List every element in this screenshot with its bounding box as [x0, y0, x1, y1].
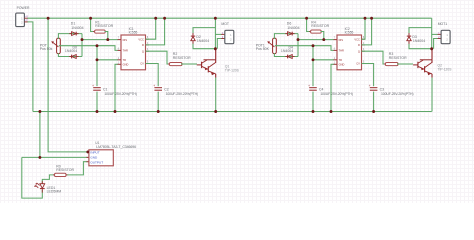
- wire flyback diode D3 bottom: [409, 42, 432, 49]
- wire resistor R4 to DIS: [321, 32, 324, 40]
- wire +12V to resistor R1: [91, 18, 96, 31]
- wire +12V feed to U1 INPUT: [48, 18, 87, 152]
- svg-text:100UF-25V-20%(PTH): 100UF-25V-20%(PTH): [320, 92, 352, 96]
- diode D1: [69, 21, 83, 35]
- svg-text:GND: GND: [123, 63, 129, 67]
- svg-text:MOT: MOT: [221, 22, 229, 26]
- svg-text:1N4004: 1N4004: [413, 39, 425, 43]
- svg-text:TR: TR: [123, 58, 127, 62]
- capacitor C2: [153, 84, 198, 96]
- capacitor C1: [92, 46, 137, 112]
- wire +12V to resistor R4: [307, 18, 312, 31]
- svg-text:100UF-25V-20%(PTH): 100UF-25V-20%(PTH): [104, 92, 136, 96]
- svg-text:CV: CV: [356, 62, 360, 66]
- wire POWER pin2 to ground bus: [27, 22, 33, 112]
- wire IC2 R to +12V bus: [362, 18, 372, 45]
- LED LED1: [34, 181, 61, 193]
- svg-text:VCC: VCC: [354, 37, 360, 41]
- wire IC GND to ground bus: [331, 64, 334, 111]
- junction dots power section: [38, 17, 89, 159]
- diode D2 flyback: [191, 33, 209, 44]
- wire resistor R1 to DIS: [105, 32, 108, 40]
- wire diode junction vertical: [81, 34, 83, 57]
- svg-text:CV: CV: [140, 62, 144, 66]
- svg-text:Q: Q: [358, 49, 360, 53]
- wire resistor R2 to transistor base: [181, 63, 197, 65]
- svg-text:C1: C1: [103, 87, 108, 91]
- wire ground bus: [33, 111, 432, 113]
- op-amp timer IC1 IC555: [118, 27, 149, 70]
- svg-text:+: +: [92, 84, 94, 88]
- connector MOT: [221, 22, 234, 44]
- svg-text:D6: D6: [287, 21, 292, 25]
- diode D0: [65, 46, 79, 59]
- resistor R0: [53, 164, 74, 176]
- svg-text:1N4004: 1N4004: [197, 39, 209, 43]
- potentiometer POT1: [256, 38, 277, 54]
- wire POT wiper to THR: [59, 46, 118, 51]
- svg-text:Pos 50k: Pos 50k: [40, 47, 53, 51]
- svg-text:DIS: DIS: [123, 38, 128, 42]
- svg-text:Pos 50K: Pos 50K: [256, 47, 270, 51]
- svg-text:+: +: [308, 84, 310, 88]
- svg-text:+: +: [153, 84, 155, 88]
- wire IC2 CV to capacitor C3: [362, 64, 374, 112]
- connector POWER: [16, 6, 30, 26]
- wire flyback diode D2 bottom: [193, 42, 215, 49]
- svg-text:C2: C2: [164, 87, 169, 91]
- junction dots oscillator: [81, 17, 167, 113]
- svg-text:RESISTOR: RESISTOR: [389, 56, 407, 60]
- transistor Q2 TIP-120: [413, 50, 452, 78]
- svg-text:DIS: DIS: [339, 38, 344, 42]
- capacitor C4: [308, 46, 353, 112]
- svg-text:VCC: VCC: [138, 37, 144, 41]
- wire MOT1 pin 1: [432, 33, 438, 35]
- svg-text:MOT1: MOT1: [438, 22, 448, 26]
- svg-text:IC555: IC555: [345, 30, 354, 34]
- transistor Q1 TIP-120: [197, 50, 240, 78]
- wire TR row: [313, 59, 334, 61]
- wire MOT1 pin 2: [434, 39, 438, 49]
- wire POT1 bottom to diode D4: [274, 53, 298, 57]
- diode D4: [281, 46, 295, 59]
- junction dots motor block: [430, 47, 433, 50]
- junction dots oscillator: [297, 17, 376, 113]
- wire flyback diode D3 top: [409, 28, 432, 36]
- svg-text:100UF-25V-20%(PTH): 100UF-25V-20%(PTH): [381, 92, 413, 96]
- wire flyback diode D2 top: [193, 28, 215, 36]
- wire DIS row: [298, 39, 334, 41]
- svg-text:RESISTOR: RESISTOR: [56, 168, 74, 172]
- svg-text:TIP-120S: TIP-120S: [225, 69, 240, 73]
- wire IC1 Q output to resistor R2: [146, 51, 171, 64]
- wire IC1 CV to capacitor C2: [146, 64, 159, 112]
- svg-text:LED5MM: LED5MM: [47, 190, 62, 194]
- svg-text:D1: D1: [71, 21, 76, 25]
- wire diode junction vertical: [297, 34, 299, 57]
- wire DIS row: [82, 39, 118, 41]
- wire MOT pin 2: [217, 39, 221, 49]
- svg-text:100UF-25V-20%(PTH): 100UF-25V-20%(PTH): [166, 92, 198, 96]
- junction dots motor block: [214, 17, 217, 113]
- wire POT1 top to diode D6: [274, 34, 298, 39]
- svg-text:RESISTOR: RESISTOR: [95, 24, 113, 28]
- voltage regulator U1 LM7805: [87, 141, 137, 166]
- svg-text:GND: GND: [90, 156, 98, 160]
- wire LED return loop: [22, 157, 43, 198]
- svg-text:1N4004: 1N4004: [71, 26, 83, 30]
- resistor R1: [93, 20, 113, 33]
- wire IC GND to ground bus: [115, 64, 118, 111]
- diode D6: [285, 21, 299, 35]
- svg-text:C4: C4: [319, 87, 324, 91]
- capacitor C3: [369, 84, 414, 96]
- wire TR row: [97, 59, 118, 61]
- wire R0 to U1 OUTPUT: [65, 162, 88, 175]
- resistor R3: [384, 52, 407, 66]
- svg-text:RESISTOR: RESISTOR: [173, 56, 191, 60]
- svg-text:LM7805L-TA3-T_C346696: LM7805L-TA3-T_C346696: [96, 145, 136, 149]
- svg-text:C3: C3: [380, 87, 385, 91]
- wire IC2 Q output to resistor R3: [362, 51, 387, 64]
- svg-text:TR: TR: [339, 58, 343, 62]
- svg-text:R: R: [142, 43, 144, 47]
- svg-text:POWER: POWER: [17, 6, 30, 10]
- svg-text:1N4004: 1N4004: [287, 26, 299, 30]
- wire POT top to diode D1: [58, 34, 82, 39]
- diode D3 flyback: [407, 33, 425, 44]
- wire Q1 emitter to ground bus: [215, 78, 217, 112]
- potentiometer POT: [40, 38, 61, 54]
- svg-text:R: R: [358, 43, 360, 47]
- svg-text:OUTPUT: OUTPUT: [90, 160, 103, 164]
- svg-text:1N4004: 1N4004: [65, 49, 77, 53]
- wire GND line to U1 GND: [22, 156, 88, 158]
- wire POT bottom to diode D0: [58, 53, 82, 57]
- svg-text:INPUT: INPUT: [90, 150, 99, 154]
- wire POT1 wiper to THR: [275, 46, 334, 51]
- wire +12V top bus: [27, 17, 432, 19]
- svg-text:RESISTOR: RESISTOR: [311, 24, 329, 28]
- resistor R2: [168, 52, 191, 66]
- svg-text:1N4004: 1N4004: [281, 49, 293, 53]
- wire +12V column to motor connector MOT: [214, 18, 216, 50]
- svg-text:THR: THR: [339, 49, 344, 53]
- svg-text:GND: GND: [339, 63, 345, 67]
- op-amp timer IC2 IC555: [334, 27, 365, 70]
- wire +12V column to motor connector MOT1: [431, 18, 433, 50]
- connector MOT1: [438, 22, 451, 44]
- wire Q2 emitter to ground bus: [431, 78, 433, 112]
- wire IC1 VCC to +12V bus: [146, 18, 156, 39]
- svg-text:TIP-120S: TIP-120S: [438, 68, 453, 72]
- svg-text:+12: +12: [25, 16, 29, 18]
- resistor R4: [309, 20, 329, 33]
- svg-text:+: +: [369, 84, 371, 88]
- wire MOT pin 1: [215, 33, 221, 35]
- svg-text:THR: THR: [123, 49, 128, 53]
- svg-text:Q: Q: [142, 49, 144, 53]
- wire IC2 VCC to +12V bus: [362, 18, 366, 39]
- wire resistor R3 to transistor base: [397, 63, 413, 65]
- svg-text:IC555: IC555: [129, 30, 138, 34]
- wire ground bus to GND line: [39, 112, 41, 158]
- wire IC1 R to +12V bus: [146, 18, 165, 45]
- wire LED anode to R0: [42, 175, 55, 184]
